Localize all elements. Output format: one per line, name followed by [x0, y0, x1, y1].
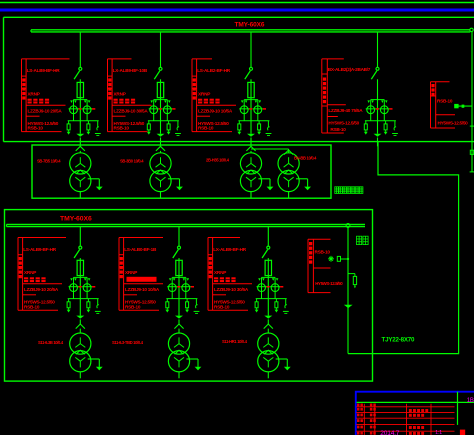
svg-text:LZZBJ9-10 20/5A: LZZBJ9-10 20/5A: [28, 109, 63, 114]
svg-text:LZZBJ9-10 20/5A: LZZBJ9-10 20/5A: [24, 287, 59, 292]
svg-text:RSB-10: RSB-10: [114, 126, 130, 131]
svg-text:BX-ALB2(2)A-2BAB/7: BX-ALB2(2)A-2BAB/7: [328, 67, 371, 72]
svg-text:RSB-10: RSB-10: [125, 304, 141, 309]
svg-text:LX-ALB9-BF-HR: LX-ALB9-BF-HR: [213, 247, 247, 252]
svg-text:TJY22-8X70: TJY22-8X70: [382, 337, 416, 344]
svg-text:LS-ALB9-BF-HR: LS-ALB9-BF-HR: [27, 68, 61, 73]
svg-text:XRNP: XRNP: [214, 270, 226, 275]
svg-text:LS-ALB0-BF-1B: LS-ALB0-BF-1B: [124, 247, 157, 252]
svg-text:RSB-10: RSB-10: [214, 304, 230, 309]
svg-text:XRNP: XRNP: [198, 92, 210, 97]
svg-text:1:1: 1:1: [435, 430, 442, 435]
svg-text:XRNP: XRNP: [114, 92, 126, 97]
svg-text:RSB-10: RSB-10: [28, 126, 44, 131]
svg-text:RSB-10: RSB-10: [330, 127, 346, 132]
svg-text:LS-ALB9-BF-HR: LS-ALB9-BF-HR: [23, 247, 57, 252]
svg-text:2014.7: 2014.7: [380, 430, 400, 435]
svg-text:HY5WS-12.5/50: HY5WS-12.5/50: [315, 281, 343, 286]
svg-text:S11-6.3-TBD 10/0.4: S11-6.3-TBD 10/0.4: [112, 340, 144, 345]
svg-text:LZZBJ9-10 30/5A: LZZBJ9-10 30/5A: [114, 109, 149, 114]
svg-text:HY5WS-12.5/50: HY5WS-12.5/50: [438, 120, 469, 125]
svg-text:LX-ALB9-BF-10B: LX-ALB9-BF-10B: [113, 68, 148, 73]
svg-text:SB-7B5 10/0.4: SB-7B5 10/0.4: [37, 158, 61, 163]
svg-text:TMY-60X6: TMY-60X6: [60, 216, 92, 223]
svg-text:RSB-10: RSB-10: [437, 99, 453, 104]
svg-text:HY5WS-12.5/50: HY5WS-12.5/50: [328, 120, 359, 125]
svg-text:TMY-60X6: TMY-60X6: [235, 22, 265, 29]
svg-text:2B-H35 10/0.4: 2B-H35 10/0.4: [206, 157, 230, 162]
svg-text:XRNP: XRNP: [125, 270, 137, 275]
svg-text:LZZBJ9-40 75/5A: LZZBJ9-40 75/5A: [328, 108, 363, 113]
svg-text:S11-6.3B 10/0.4: S11-6.3B 10/0.4: [38, 340, 64, 345]
svg-text:SB-3B0 10/0.4: SB-3B0 10/0.4: [120, 158, 144, 163]
svg-text:XRNP: XRNP: [28, 92, 40, 97]
svg-text:RSB-10: RSB-10: [315, 250, 331, 255]
svg-text:S11-HR1 10/0.4: S11-HR1 10/0.4: [222, 339, 248, 344]
svg-text:LZZBJ9-10 10/5A: LZZBJ9-10 10/5A: [125, 287, 160, 292]
svg-text:1B: 1B: [467, 398, 474, 404]
svg-text:LS-ALB2-BF-HR: LS-ALB2-BF-HR: [197, 68, 231, 73]
svg-text:LZZBJ9-10 30/5A: LZZBJ9-10 30/5A: [214, 287, 249, 292]
svg-text:LZZBJ9-10 10/5A: LZZBJ9-10 10/5A: [198, 109, 233, 114]
svg-text:XRNP: XRNP: [24, 270, 36, 275]
svg-text:BN-BB 10/0.4: BN-BB 10/0.4: [294, 156, 317, 161]
svg-text:RSB-10: RSB-10: [198, 126, 214, 131]
svg-text:RSB-10: RSB-10: [24, 304, 40, 309]
